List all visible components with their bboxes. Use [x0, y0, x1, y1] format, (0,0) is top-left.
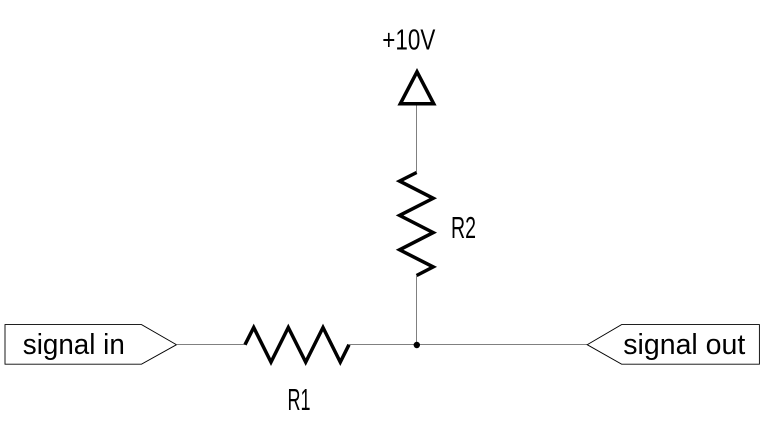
- resistor R1: [245, 328, 349, 363]
- wire triangle to R2: [416, 106, 418, 173]
- wire signal in to R1: [177, 344, 246, 346]
- svg-text:R2: R2: [451, 211, 476, 245]
- junction node: [414, 342, 420, 348]
- svg-text:signal in: signal in: [23, 329, 125, 361]
- svg-text:R1: R1: [288, 383, 311, 417]
- svg-text:+10V: +10V: [382, 24, 435, 56]
- flag signal in: [5, 325, 177, 365]
- flag signal out: [587, 325, 759, 365]
- wire R1 to signal out: [349, 344, 587, 346]
- resistor R2: [400, 173, 434, 276]
- svg-text:signal out: signal out: [623, 329, 745, 361]
- wire R2 to junction: [416, 276, 418, 346]
- power symbol +10V (triangle): [400, 72, 433, 104]
